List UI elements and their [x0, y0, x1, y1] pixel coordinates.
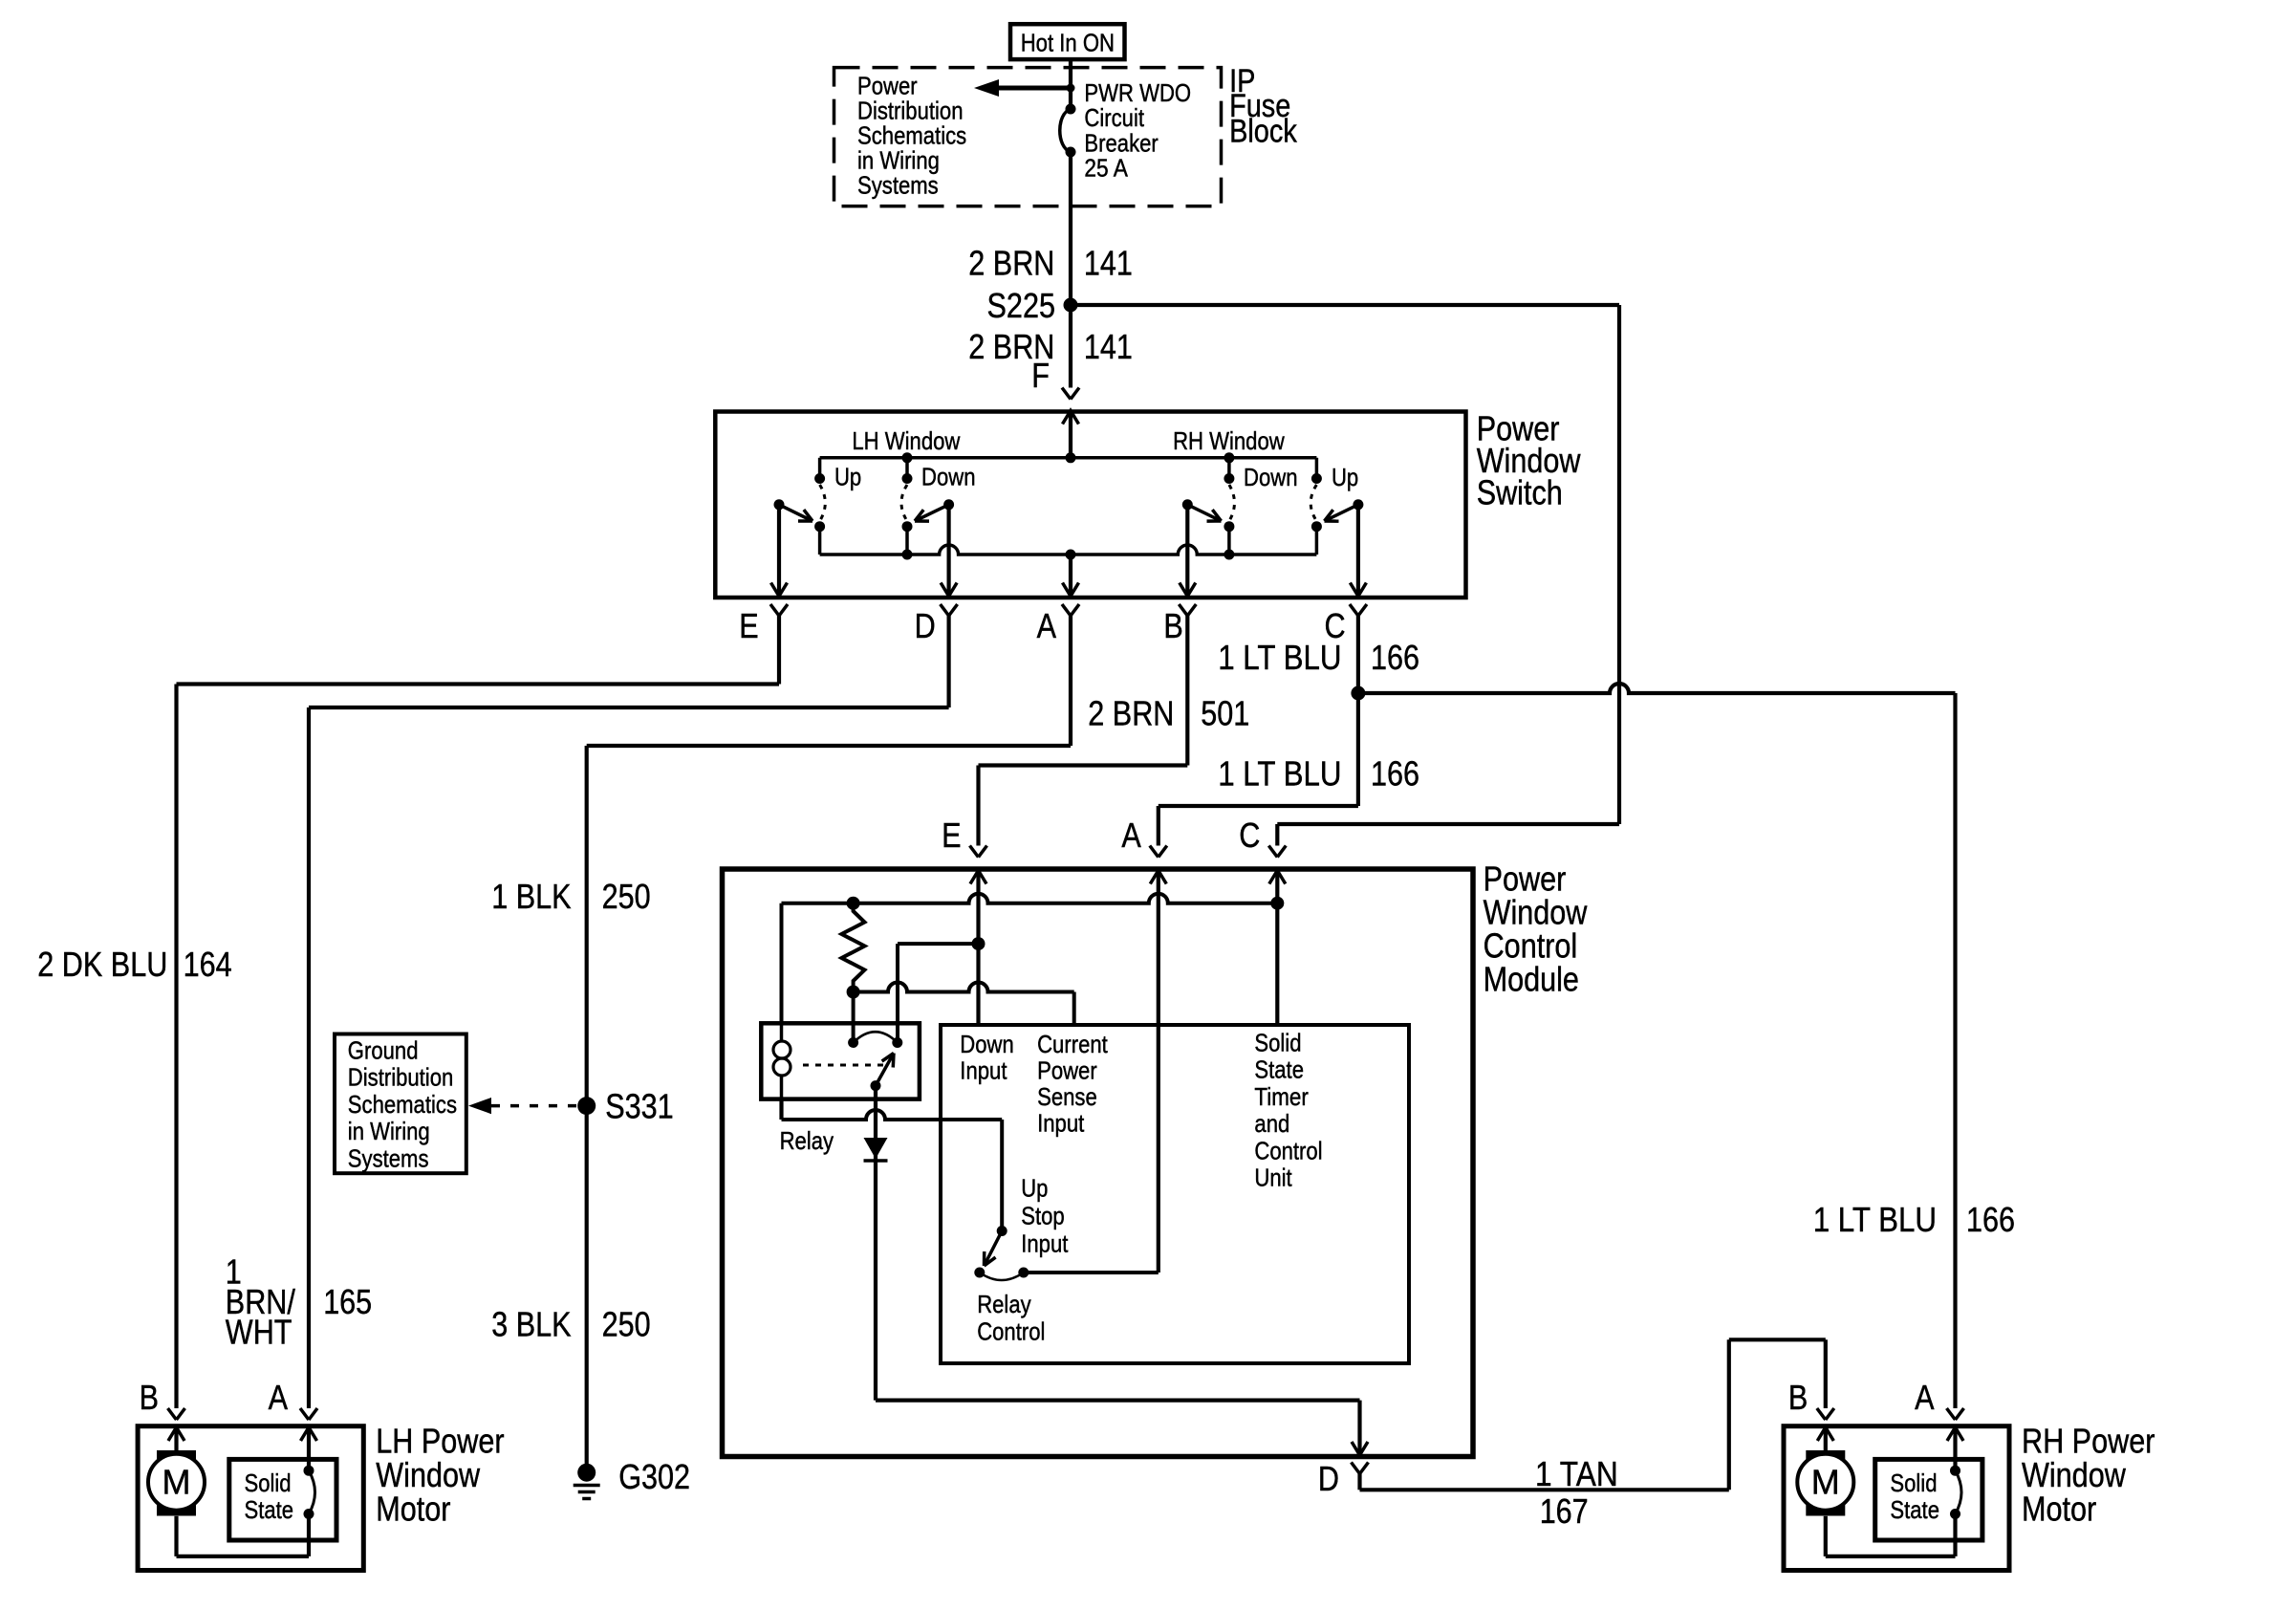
svg-text:E: E	[739, 606, 758, 645]
svg-text:Block: Block	[1229, 113, 1298, 149]
svg-text:Solid: Solid	[1254, 1028, 1301, 1056]
svg-text:WHT: WHT	[226, 1313, 292, 1352]
svg-text:165: 165	[323, 1282, 372, 1321]
svg-text:501: 501	[1201, 693, 1249, 732]
svg-text:Relay: Relay	[977, 1290, 1030, 1318]
svg-text:B: B	[140, 1378, 159, 1417]
svg-text:250: 250	[602, 877, 651, 916]
svg-text:1 BLK: 1 BLK	[491, 877, 571, 916]
svg-text:A: A	[1915, 1378, 1934, 1417]
svg-text:250: 250	[602, 1305, 651, 1344]
svg-text:Current: Current	[1037, 1030, 1108, 1058]
svg-text:A: A	[269, 1378, 288, 1417]
svg-text:State: State	[1890, 1495, 1939, 1524]
svg-text:LH Window: LH Window	[852, 426, 960, 455]
svg-text:Stop: Stop	[1021, 1201, 1065, 1229]
svg-text:Down: Down	[960, 1030, 1014, 1058]
svg-text:Control: Control	[977, 1317, 1045, 1346]
svg-text:Input: Input	[1037, 1108, 1085, 1137]
svg-text:B: B	[1788, 1378, 1808, 1417]
svg-text:3 BLK: 3 BLK	[491, 1305, 571, 1344]
svg-text:B: B	[1163, 606, 1182, 645]
svg-text:E: E	[942, 816, 961, 855]
svg-text:164: 164	[184, 945, 232, 984]
svg-text:1 LT BLU: 1 LT BLU	[1218, 638, 1341, 677]
svg-text:F: F	[1031, 356, 1050, 395]
svg-text:166: 166	[1371, 754, 1419, 794]
svg-text:Switch: Switch	[1477, 472, 1563, 511]
svg-text:Solid: Solid	[1890, 1469, 1937, 1497]
svg-text:2 BRN: 2 BRN	[968, 244, 1054, 283]
svg-text:Up: Up	[834, 463, 861, 491]
svg-text:A: A	[1121, 816, 1140, 855]
svg-text:State: State	[1254, 1055, 1304, 1084]
svg-text:1 TAN: 1 TAN	[1535, 1454, 1618, 1493]
svg-text:M: M	[1811, 1463, 1840, 1502]
svg-text:141: 141	[1084, 244, 1133, 283]
svg-text:1 LT BLU: 1 LT BLU	[1813, 1200, 1937, 1239]
svg-text:Systems: Systems	[348, 1143, 429, 1172]
svg-text:Relay: Relay	[780, 1126, 834, 1155]
svg-text:D: D	[915, 606, 936, 645]
svg-text:25 A: 25 A	[1084, 153, 1128, 182]
svg-text:S331: S331	[605, 1087, 674, 1126]
svg-text:Ground: Ground	[348, 1035, 419, 1064]
svg-text:Timer: Timer	[1254, 1082, 1309, 1111]
svg-text:Up: Up	[1332, 463, 1358, 491]
svg-text:Down: Down	[1244, 463, 1298, 491]
svg-text:Input: Input	[1021, 1229, 1069, 1258]
svg-text:Power: Power	[1037, 1055, 1097, 1084]
svg-text:Input: Input	[960, 1055, 1007, 1084]
svg-text:G302: G302	[618, 1457, 690, 1496]
svg-text:166: 166	[1966, 1200, 2015, 1239]
svg-text:Sense: Sense	[1037, 1082, 1097, 1111]
svg-text:1 LT BLU: 1 LT BLU	[1218, 754, 1341, 794]
svg-text:2 BRN: 2 BRN	[1088, 693, 1174, 732]
svg-text:Systems: Systems	[857, 171, 939, 200]
svg-text:RH Window: RH Window	[1173, 426, 1285, 455]
svg-text:Module: Module	[1484, 960, 1579, 999]
svg-text:167: 167	[1540, 1491, 1589, 1531]
svg-text:Solid: Solid	[245, 1469, 292, 1497]
svg-text:M: M	[162, 1463, 191, 1502]
svg-text:Motor: Motor	[2022, 1489, 2096, 1528]
svg-text:Distribution: Distribution	[348, 1063, 454, 1092]
svg-text:Unit: Unit	[1254, 1163, 1292, 1191]
svg-text:Schematics: Schematics	[348, 1090, 457, 1119]
svg-text:Control: Control	[1254, 1136, 1322, 1164]
svg-text:S225: S225	[987, 286, 1056, 325]
svg-text:2 DK BLU: 2 DK BLU	[37, 945, 167, 984]
svg-text:Up: Up	[1021, 1173, 1048, 1202]
svg-text:and: and	[1254, 1109, 1289, 1138]
svg-text:D: D	[1318, 1459, 1339, 1498]
svg-text:Down: Down	[921, 463, 976, 491]
svg-text:in Wiring: in Wiring	[348, 1117, 430, 1145]
svg-text:166: 166	[1371, 638, 1419, 677]
svg-text:C: C	[1239, 816, 1260, 855]
svg-text:State: State	[245, 1495, 294, 1524]
svg-text:Motor: Motor	[376, 1489, 450, 1528]
svg-text:141: 141	[1084, 327, 1133, 366]
svg-text:Hot In ON: Hot In ON	[1021, 29, 1115, 57]
svg-text:A: A	[1037, 606, 1056, 645]
